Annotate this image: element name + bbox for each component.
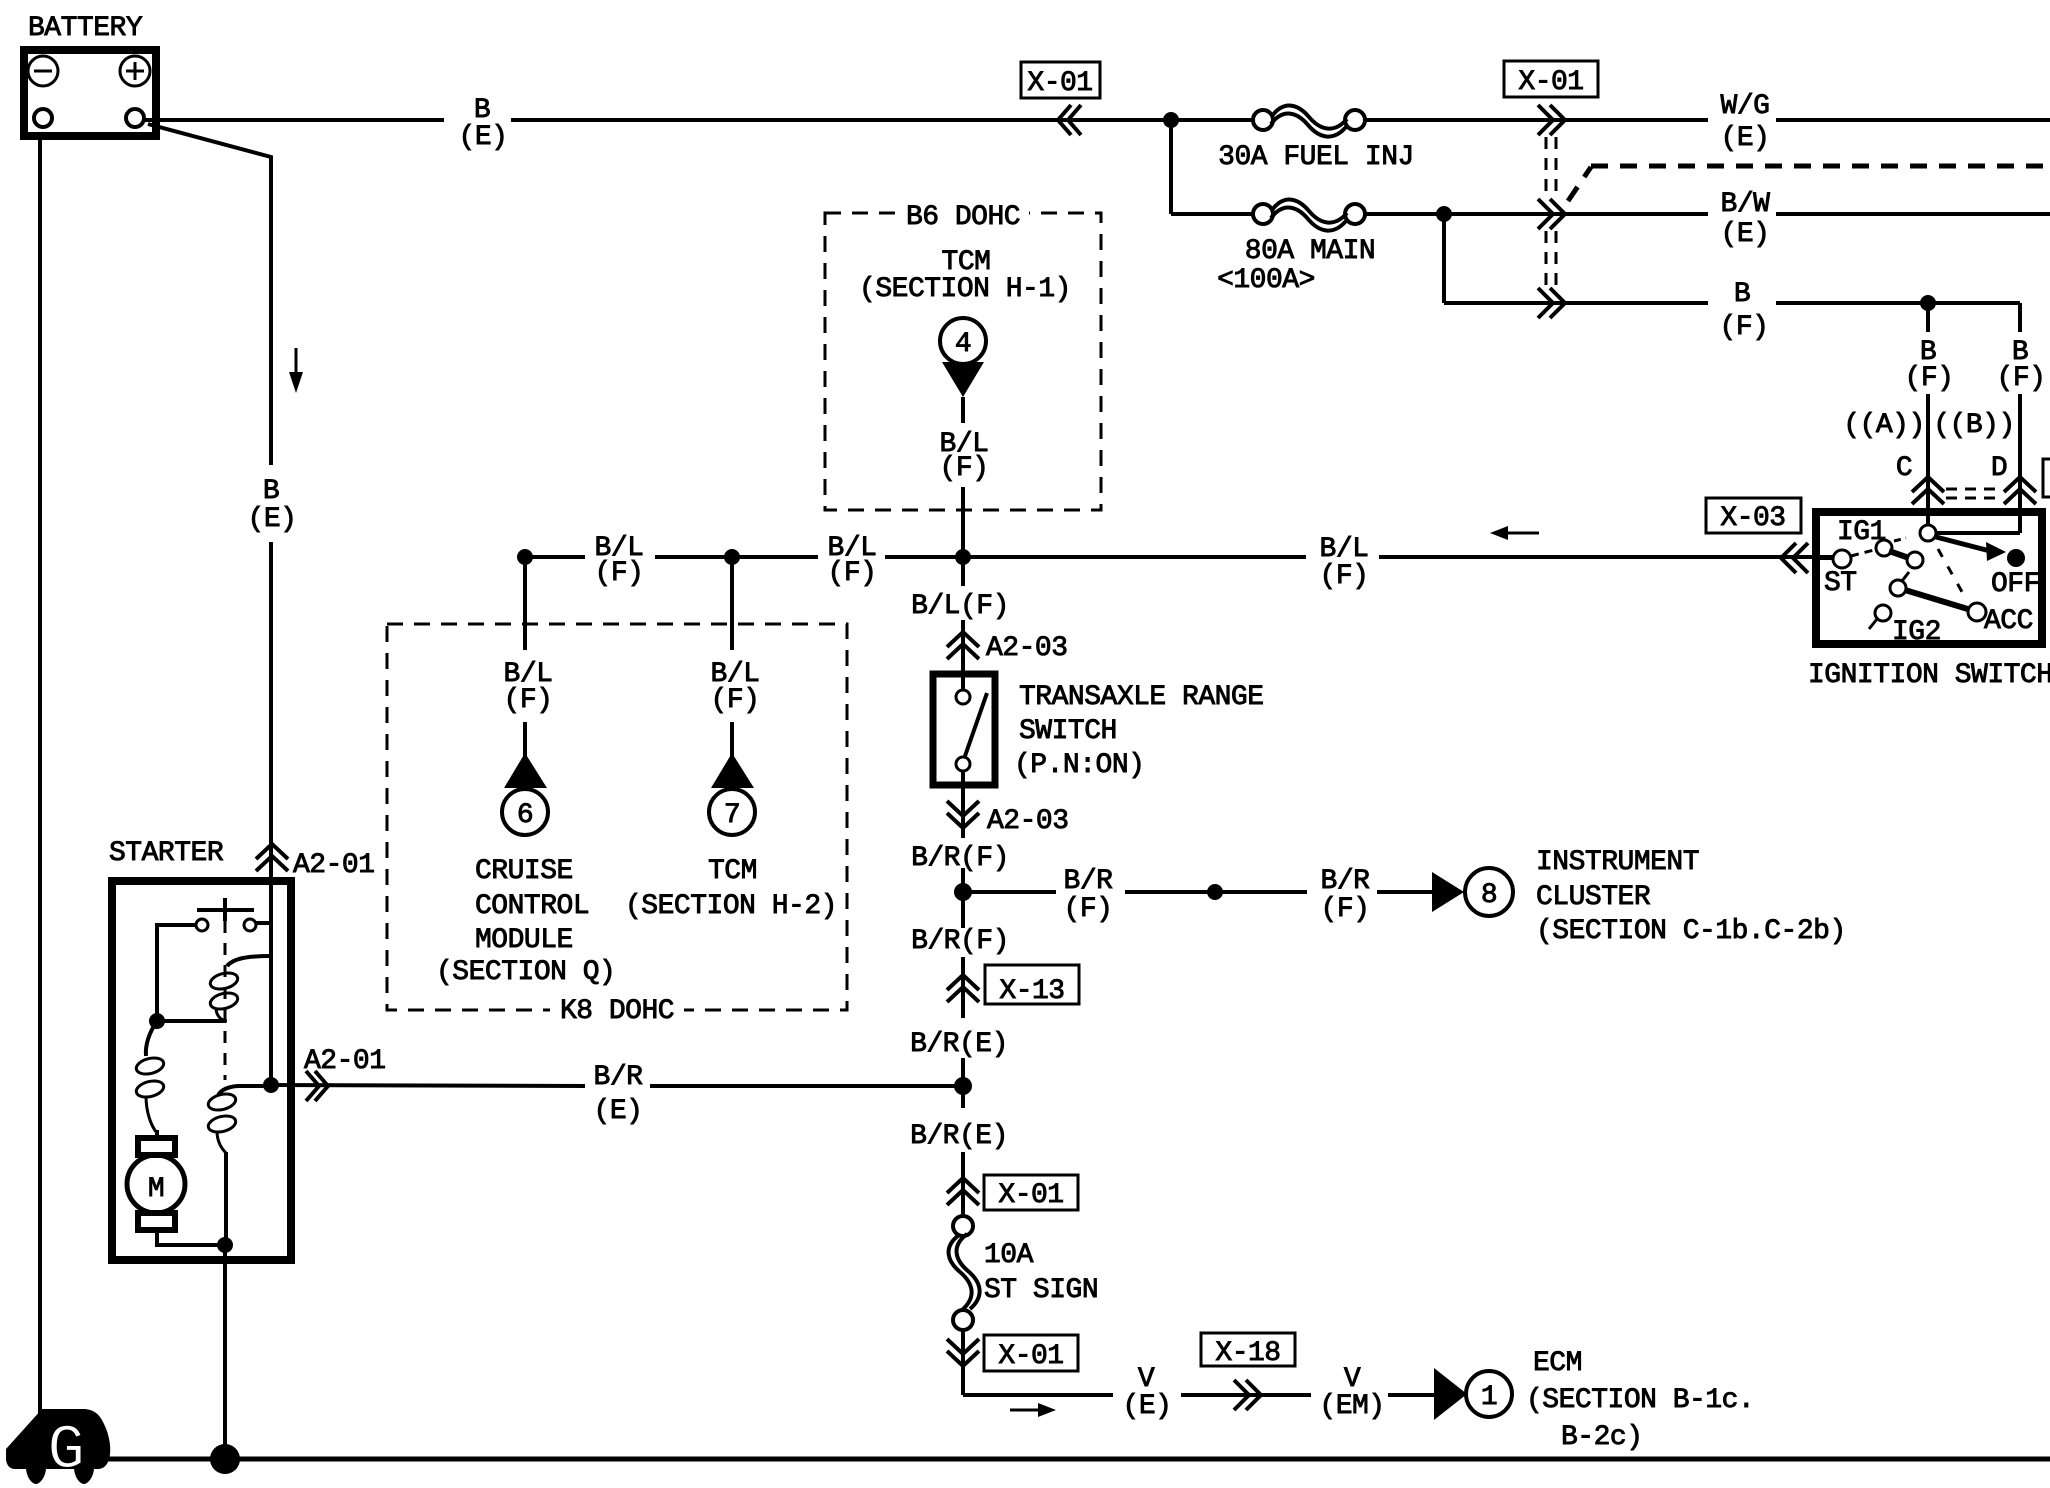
svg-text:(F): (F) [1320,561,1369,592]
svg-text:K8 DOHC: K8 DOHC [560,996,674,1027]
starter: wire junction to pull-in coil line [157,1019,226,1023]
wire bus down to TCM (K8) [730,557,734,760]
wire junction down to 80A row [1169,120,1173,214]
connector X-01 box st-sign lower [984,1335,1078,1372]
connector X-01 dashed boundary lines [1546,137,1556,287]
node: junction top wire / fuse branch [1163,112,1179,128]
svg-text:B6 DOHC: B6 DOHC [906,202,1020,233]
arrow current direction (down) [289,348,303,393]
svg-text:((A)): ((A)) [1843,410,1925,441]
wire label B (F) on C [1905,337,1954,394]
arrow current direction (left) above B/L wire [1490,526,1539,540]
K8 DOHC title [550,996,684,1027]
svg-text:X-01: X-01 [998,1180,1063,1211]
svg-text:M: M [148,1174,164,1205]
wire battery positive diagonal down to starter [148,124,271,881]
connector chevron X-01 left (in-line, pointing left) [1058,105,1081,135]
wire dashed branch to right edge [1568,166,2050,201]
svg-text:(SECTION C-1b.C-2b): (SECTION C-1b.C-2b) [1536,916,1846,947]
svg-text:B: B [1734,279,1750,310]
connector chevron X-01 st-sign upper (pointing up) [947,1178,979,1205]
connector chevron A2-03 upper (pointing up) [947,632,979,659]
label TCM (SECTION H-1) [859,247,1071,305]
svg-text:INSTRUMENT: INSTRUMENT [1536,847,1699,878]
connector chevron A2-01 into starter (pointing up) [256,844,288,871]
svg-text:ST: ST [1824,568,1857,599]
wire circle4 down to B/L bus [961,397,965,557]
node: B/L bus junction mid [724,549,740,565]
wire label B/L (F) bus 1 [595,533,644,589]
svg-text:(E): (E) [1123,1391,1172,1422]
connector circle 6 [502,789,548,835]
svg-text:W/G: W/G [1721,91,1770,122]
transaxle range switch box [933,674,995,785]
svg-text:B/R(E): B/R(E) [910,1029,1008,1060]
connector triangle to circle 7 (pointing up) [711,753,754,788]
svg-text:OFF: OFF [1991,569,2040,600]
svg-text:(E): (E) [248,504,297,535]
connector chevron C (pointing up) [1912,477,1944,504]
ground bus wire [105,1457,2050,1462]
svg-text:(F): (F) [711,685,760,716]
wire below fuse to corner [961,1330,965,1395]
svg-text:IG1: IG1 [1837,517,1886,548]
svg-text:X-01: X-01 [1518,67,1583,98]
starter box [112,881,291,1260]
svg-text:ACC: ACC [1984,606,2033,637]
connector circle 8 [1465,868,1513,916]
wire label B/W (E) [1721,189,1771,250]
wire D branch vertical [1936,394,2020,533]
wire right vertical inside starter [269,923,273,1085]
label ECM [1526,1348,1754,1453]
wire C branch vertical [1926,303,1930,533]
connector chevrons X-01 right on three rows (pointing right) [1538,105,1565,318]
wire label B (E) vertical [248,476,297,535]
wire label W/G (E) [1721,91,1770,154]
connector X-01 box left [1021,62,1100,99]
starter: node junction [149,1013,165,1029]
wire label V (EM) [1319,1364,1384,1422]
svg-text:B-2c): B-2c) [1561,1422,1643,1453]
svg-text:B/R(E): B/R(E) [910,1121,1008,1152]
node: B/L bus junction at B6 [955,549,971,565]
connector chevron A2-01 out of starter (pointing right) [306,1071,328,1101]
connector X-01 box st-sign upper [984,1175,1078,1211]
connector triangle instrument cluster (pointing right) [1432,872,1464,912]
wire label B/L (F) bus 2 [828,533,877,589]
wire label B/R (E) row [594,1062,644,1127]
svg-text:30A FUEL INJ: 30A FUEL INJ [1218,142,1414,173]
starter: wire from battery into contact [256,881,271,923]
svg-text:X-01: X-01 [998,1341,1063,1372]
svg-text:IGNITION SWITCH: IGNITION SWITCH [1808,660,2050,691]
svg-text:(F): (F) [1997,363,2046,394]
connector chevron X-13 (pointing up) [947,975,979,1002]
wire bus down to cruise control [523,557,527,760]
svg-text:4: 4 [955,329,971,360]
svg-text:(EM): (EM) [1319,1391,1384,1422]
node: junction B/R(E) row [954,1077,972,1095]
connector X-03 box [1706,498,1801,534]
svg-text:(E): (E) [1721,219,1770,250]
svg-text:(E): (E) [594,1096,643,1127]
svg-text:(E): (E) [1721,123,1770,154]
node: B/L bus junction left [517,549,533,565]
svg-text:A2-03: A2-03 [986,633,1068,664]
svg-text:(F): (F) [1064,894,1113,925]
connector chevron X-01 st-sign lower (pointing down) [947,1339,979,1366]
B6 DOHC title [898,200,1029,233]
svg-text:D: D [1991,453,2007,484]
svg-text:B/R: B/R [1064,866,1114,897]
starter: field coil left [135,1021,166,1140]
wire B(F) corner to D branch [2018,303,2022,332]
svg-text:TRANSAXLE RANGE: TRANSAXLE RANGE [1019,682,1264,713]
svg-text:(F): (F) [940,453,989,484]
starter: plunger dashed link [224,921,227,1080]
label TCM section H-2 [625,856,837,922]
connector X-13 box [985,965,1079,1007]
starter: wire motor to bottom node [157,1230,225,1245]
starter: contact terminals [196,919,256,931]
svg-text:IG2: IG2 [1892,617,1941,648]
svg-text:(F): (F) [1720,312,1769,343]
ignition switch box [1816,512,2042,644]
arrow current direction (right) below V wire [1010,1403,1056,1417]
svg-text:ECM: ECM [1533,1348,1582,1379]
label instrument cluster [1536,847,1846,947]
starter: node bottom [217,1237,233,1253]
svg-text:(F): (F) [1905,363,1954,394]
partial connector box right edge [2043,459,2050,497]
svg-text:(P.N:ON): (P.N:ON) [1014,750,1144,781]
svg-text:A2-01: A2-01 [293,850,375,881]
connector circle 1 [1466,1371,1512,1417]
wire junction down to B(F) row [1442,214,1446,303]
wire V(E) row [963,1393,1434,1397]
connector triangle ECM (pointing right) [1434,1368,1467,1420]
fuse 10A ST SIGN (vertical) [949,1216,1099,1330]
svg-text:(SECTION H-1): (SECTION H-1) [859,274,1071,305]
wire 80A row [1171,212,2050,216]
svg-text:((B)): ((B)) [1933,410,2015,441]
svg-text:X-18: X-18 [1215,1338,1280,1369]
svg-text:(SECTION H-2): (SECTION H-2) [625,891,837,922]
battery [24,50,156,136]
wire label B/L (F) tcm [711,659,760,716]
svg-text:(SECTION B-1c.: (SECTION B-1c. [1526,1385,1754,1416]
fuse 30A FUEL INJ [1218,106,1414,173]
connector chevron A2-03 lower (pointing down) [947,801,979,828]
label transaxle range switch [1014,682,1264,781]
svg-text:8: 8 [1481,880,1497,911]
svg-text:(E): (E) [459,122,508,153]
connector circle 4 [940,318,986,364]
svg-text:(SECTION Q): (SECTION Q) [436,957,615,988]
svg-text:G: G [48,1415,85,1486]
wire B/R (E) row starter to junction [271,1085,963,1086]
connector X-18 box [1201,1333,1295,1369]
wire label B/R (F) row 2 [1321,866,1371,925]
svg-text:B/R: B/R [594,1062,644,1093]
starter: wire left contact down [157,925,196,1021]
svg-text:C: C [1896,453,1912,484]
ground symbol G (car) [6,1409,110,1486]
wire below B/R(E) junction [961,1086,965,1216]
node: ground bus big junction [210,1444,240,1474]
svg-text:A2-03: A2-03 [987,806,1069,837]
svg-text:(F): (F) [504,685,553,716]
wire below transaxle switch [961,785,965,892]
wire B6 junction down to transaxle switch [961,557,965,675]
starter: hold-in coil [207,1086,264,1245]
starter: motor M [127,1138,185,1230]
connector circle 7 [709,789,755,835]
node: junction 80A row [1436,206,1452,222]
svg-text:SWITCH: SWITCH [1019,716,1117,747]
wire label B (E) top left [459,95,508,153]
svg-text:X-01: X-01 [1027,68,1092,99]
svg-text:ST SIGN: ST SIGN [984,1275,1098,1306]
svg-text:B/L(F): B/L(F) [911,591,1009,622]
ignition switch internals [1817,525,2025,629]
wire label B/R (F) row 1 [1064,866,1114,925]
B6 DOHC dashed box [825,213,1101,510]
svg-text:BATTERY: BATTERY [28,13,143,44]
wire label V (E) [1123,1364,1172,1422]
wire B(F) row [1444,301,2020,305]
svg-text:7: 7 [724,800,740,831]
wire B/R down from junction [961,892,965,1086]
starter: relay contact tick and bar [197,898,254,921]
svg-text:B/W: B/W [1721,189,1771,220]
wire B/L bus horizontal [525,555,1833,559]
connector X-01 box right [1504,61,1598,98]
connector triangle to circle 6 (pointing up) [504,753,547,788]
svg-text:MODULE: MODULE [475,925,573,956]
svg-text:B/R(F): B/R(F) [911,926,1009,957]
svg-text:X-13: X-13 [999,976,1064,1007]
svg-text:TCM: TCM [708,856,757,887]
ignition switch terminal labels [1824,517,2040,648]
svg-text:B/R(F): B/R(F) [911,843,1009,874]
label cruise control module [436,856,615,988]
wire label B (F) on D [1997,337,2046,394]
connector triangle below circle 4 (pointing down) [942,362,984,397]
node: junction B/R row [954,883,972,901]
connector chevron X-18 (pointing right) [1234,1380,1261,1410]
svg-text:B/R: B/R [1321,866,1371,897]
svg-text:10A: 10A [984,1240,1034,1271]
wire starter to ground bus [223,1245,227,1459]
svg-text:X-03: X-03 [1720,503,1785,534]
svg-text:1: 1 [1481,1382,1497,1413]
svg-text:(F): (F) [1321,894,1370,925]
K8 DOHC dashed box [387,624,847,1010]
wire label B/L (F) bus 3 [1320,534,1369,592]
connector dashed link C-D [1946,489,2002,498]
wire battery positive to right (B (E)) [144,118,2050,122]
svg-text:(F): (F) [595,558,644,589]
svg-text:A2-01: A2-01 [304,1046,386,1077]
starter: node solenoid output [263,1077,279,1093]
wire label B (F) [1720,279,1769,343]
connector chevron before ignition switch (pointing left) [1781,543,1808,573]
starter: pull-in coil [209,956,271,1021]
svg-text:STARTER: STARTER [109,838,224,869]
svg-text:CRUISE: CRUISE [475,856,573,887]
svg-text:B: B [263,476,279,507]
svg-text:80A MAIN: 80A MAIN [1245,236,1375,267]
svg-text:CONTROL: CONTROL [475,891,589,922]
wire label B/L (F) cruise [504,659,553,716]
svg-text:(F): (F) [828,558,877,589]
wire B/R row to instrument cluster [963,890,1432,894]
transaxle range switch contacts [956,676,987,788]
node: junction B/R row mid [1207,884,1223,900]
node: junction B(F) row [1920,295,1936,311]
svg-text:6: 6 [517,800,533,831]
svg-text:CLUSTER: CLUSTER [1536,882,1651,913]
fuse 80A MAIN [1217,200,1375,296]
wire battery negative down [38,136,42,1420]
connector chevron D (pointing up) [2004,477,2036,504]
wire label B/L (F) inside B6 box [940,429,989,484]
svg-text:<100A>: <100A> [1217,265,1315,296]
